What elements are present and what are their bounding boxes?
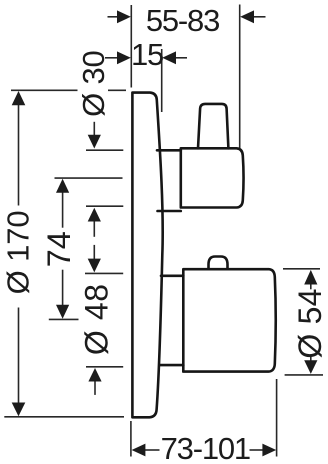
bump on handle (209, 257, 228, 270)
arrow: O48 lower (up) (88, 368, 101, 382)
plate (escutcheon) outline (132, 93, 162, 418)
wire: 74 top extension (55, 177, 123, 179)
wire: O30 bottom extension (86, 205, 123, 207)
wire: 15 left arrow tail (105, 57, 119, 59)
svg-text:74: 74 (41, 231, 77, 267)
svg-text:Ø 170: Ø 170 (0, 210, 35, 294)
arrow: 74 bottom (56, 305, 69, 319)
arrow: O48 upper (down) (88, 259, 101, 273)
arrow: 55-83 left (117, 10, 131, 23)
wire: O48 upper arrow stem (93, 245, 95, 260)
arrow: O30 upper (down) (88, 135, 101, 149)
wire: 73-101 dimension line right (250, 449, 265, 451)
wire: O54 top extension (283, 268, 320, 270)
svg-text:Ø 54: Ø 54 (292, 288, 328, 358)
wire: O170 dimension line upper (18, 104, 20, 206)
wire: 73-101 left extension (130, 421, 132, 457)
collar upper: top line (157, 149, 181, 152)
wire: 74 dimension line upper (62, 192, 64, 228)
wire: 55-83 right arrow tail (254, 16, 266, 18)
arrow: 73-101 right (262, 444, 276, 457)
wire: O30 upper arrow stem (93, 122, 95, 136)
wire: O54 bottom extension (285, 374, 323, 376)
arrow: 15 left (117, 51, 131, 64)
wire: O30 top extension (86, 149, 123, 151)
svg-text:15: 15 (131, 37, 163, 72)
wire: O48 lower arrow stem (94, 381, 96, 395)
wire: 55-83 right extension line (239, 5, 241, 150)
wire: O54 lower arrow stem (310, 356, 312, 361)
wire: O30 lower arrow stem (93, 221, 95, 237)
collar lower: bottom line (160, 364, 184, 367)
flange (top valve escutcheon) (181, 148, 244, 207)
svg-text:Ø 30: Ø 30 (76, 50, 111, 116)
arrow: O170 top (12, 91, 26, 105)
wire: 55-83 left extension line (130, 5, 132, 88)
svg-text:55-83: 55-83 (146, 3, 219, 38)
wire: O170 bottom extension (4, 416, 124, 418)
arrow: O170 bottom (12, 403, 26, 417)
wire: O48 bottom extension (86, 366, 123, 368)
arrow: 73-101 left (132, 444, 146, 457)
arrow: O54 bottom (down) (304, 360, 317, 374)
arrow: 15 right (162, 51, 176, 64)
svg-text:73-101: 73-101 (161, 431, 250, 464)
collar upper: bottom line (158, 210, 181, 213)
wire: top horizontal extension y=90 (11, 89, 78, 91)
wire: 73-101 right extension (276, 379, 278, 457)
wire: 73-101 dimension line left (145, 449, 160, 451)
wire: O54 upper arrow stem (310, 284, 312, 290)
thermostat handle (O54) (183, 269, 275, 371)
wire: 74 bottom extension (49, 318, 79, 320)
arrow: O30 lower (up) (88, 208, 101, 222)
arrow: 55-83 right (240, 10, 254, 23)
svg-text:Ø 48: Ø 48 (79, 283, 115, 355)
wire: O48 top extension (85, 272, 123, 274)
wire: 74 dimension line lower (62, 270, 64, 306)
wire: 15 right extension line (161, 49, 163, 112)
wire: O170 dimension line lower (18, 308, 20, 405)
wire: 55-83 left arrow tail (108, 16, 120, 18)
grip (shut-off handle, O30) (198, 104, 228, 148)
wire: 15 right arrow tail (175, 57, 188, 59)
collar lower: top line (161, 274, 183, 277)
arrow: 74 top (56, 179, 69, 193)
arrow: O54 top (up) (304, 270, 317, 285)
